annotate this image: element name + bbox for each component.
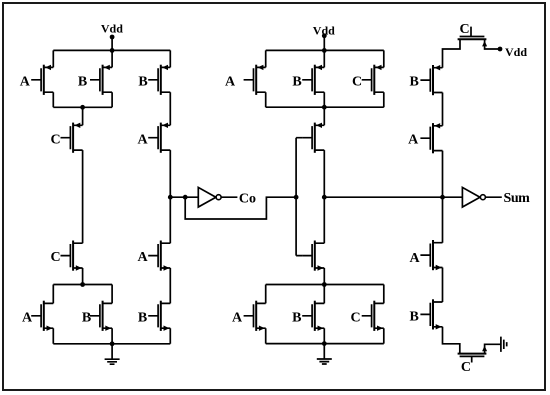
svg-text:C: C — [352, 74, 362, 89]
svg-text:Vdd: Vdd — [505, 45, 527, 59]
svg-text:C: C — [351, 310, 361, 325]
svg-text:A: A — [410, 251, 421, 266]
svg-text:A: A — [137, 132, 148, 147]
svg-text:A: A — [225, 74, 236, 89]
svg-text:B: B — [292, 310, 301, 325]
svg-text:A: A — [408, 132, 419, 147]
svg-text:B: B — [410, 75, 419, 90]
svg-text:B: B — [82, 310, 91, 325]
svg-text:C: C — [459, 22, 469, 37]
svg-text:Vdd: Vdd — [101, 22, 123, 36]
svg-text:A: A — [232, 310, 243, 325]
svg-text:Vdd: Vdd — [313, 24, 335, 38]
svg-text:B: B — [78, 74, 87, 89]
svg-text:B: B — [138, 310, 147, 325]
svg-text:C: C — [461, 360, 471, 375]
svg-text:B: B — [138, 74, 147, 89]
svg-text:A: A — [20, 74, 31, 89]
svg-text:A: A — [137, 250, 148, 265]
svg-text:Sum: Sum — [504, 191, 531, 206]
svg-text:A: A — [22, 310, 33, 325]
svg-text:C: C — [50, 250, 60, 265]
svg-text:B: B — [410, 309, 419, 324]
svg-text:C: C — [50, 132, 60, 147]
svg-text:Co: Co — [239, 191, 256, 206]
svg-text:B: B — [292, 74, 301, 89]
